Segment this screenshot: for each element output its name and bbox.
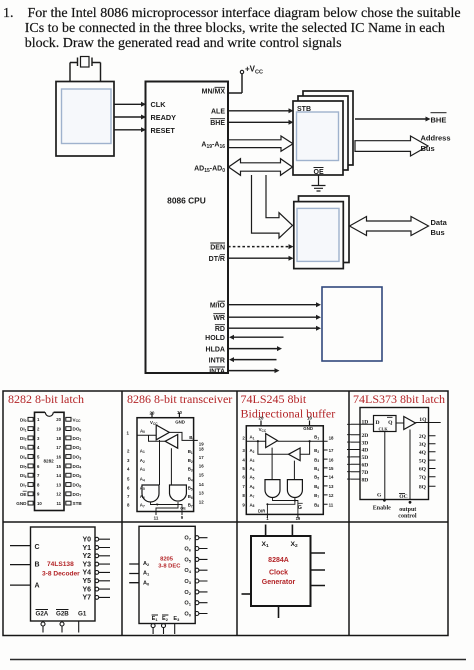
svg-text:3: 3 xyxy=(37,436,40,441)
svg-text:B2: B2 xyxy=(314,448,319,454)
svg-text:Y7: Y7 xyxy=(82,595,91,602)
svg-text:5: 5 xyxy=(242,466,245,471)
svg-text:OE: OE xyxy=(20,492,27,497)
svg-text:2D: 2D xyxy=(362,433,369,439)
svg-text:RD: RD xyxy=(215,326,225,333)
svg-text:G: G xyxy=(298,505,302,511)
svg-text:D: D xyxy=(376,420,380,426)
svg-text:8: 8 xyxy=(37,482,40,487)
svg-text:A6: A6 xyxy=(250,484,255,490)
svg-text:4: 4 xyxy=(242,457,245,462)
svg-text:7D: 7D xyxy=(362,470,369,476)
svg-text:B3: B3 xyxy=(188,467,193,473)
svg-text:6: 6 xyxy=(242,475,245,480)
svg-text:8282 8-bit latch: 8282 8-bit latch xyxy=(8,392,84,406)
svg-text:Y6: Y6 xyxy=(82,586,91,593)
svg-text:7: 7 xyxy=(127,494,130,499)
svg-text:DI1: DI1 xyxy=(20,427,27,433)
svg-text:A2: A2 xyxy=(250,448,255,454)
svg-text:DO2: DO2 xyxy=(73,445,82,451)
svg-text:B0: B0 xyxy=(189,435,194,441)
svg-text:15: 15 xyxy=(56,464,61,469)
svg-text:DO4: DO4 xyxy=(73,464,82,470)
svg-text:A0: A0 xyxy=(140,428,145,434)
svg-text:CLK: CLK xyxy=(379,426,389,431)
svg-text:A7: A7 xyxy=(250,493,255,499)
svg-text:A2: A2 xyxy=(143,561,150,567)
svg-text:1: 1 xyxy=(266,516,269,521)
svg-text:14: 14 xyxy=(199,482,204,487)
svg-text:5: 5 xyxy=(127,477,130,482)
svg-text:9: 9 xyxy=(37,492,40,497)
svg-text:A6: A6 xyxy=(140,494,145,500)
svg-text:74LS373 8bit latch: 74LS373 8bit latch xyxy=(353,392,445,406)
svg-text:4Q: 4Q xyxy=(419,450,427,456)
svg-text:MN/MX: MN/MX xyxy=(202,88,226,95)
svg-text:17: 17 xyxy=(56,445,61,450)
svg-text:2: 2 xyxy=(127,448,130,453)
svg-text:output: output xyxy=(399,507,416,513)
svg-text:8: 8 xyxy=(127,503,130,508)
svg-text:Clock: Clock xyxy=(269,570,288,577)
svg-text:16: 16 xyxy=(199,464,204,469)
svg-text:Address: Address xyxy=(421,134,451,143)
svg-text:10: 10 xyxy=(307,415,312,420)
svg-text:Bus: Bus xyxy=(431,228,445,237)
svg-text:12: 12 xyxy=(56,492,61,497)
svg-text:14: 14 xyxy=(56,473,61,478)
svg-text:O1: O1 xyxy=(184,601,191,607)
svg-text:DI3: DI3 xyxy=(20,445,27,451)
svg-text:1: 1 xyxy=(127,431,130,436)
svg-text:18: 18 xyxy=(199,446,204,451)
svg-text:HLDA: HLDA xyxy=(206,347,225,354)
svg-text:INTA: INTA xyxy=(209,368,225,375)
svg-text:B6: B6 xyxy=(314,484,319,490)
svg-text:STB: STB xyxy=(73,501,83,506)
svg-text:4: 4 xyxy=(37,445,40,450)
svg-text:C: C xyxy=(35,544,40,551)
svg-text:Y5: Y5 xyxy=(82,578,91,585)
svg-text:6D: 6D xyxy=(362,463,369,469)
svg-text:6: 6 xyxy=(37,464,40,469)
svg-text:13: 13 xyxy=(199,491,204,496)
svg-text:DO1: DO1 xyxy=(73,436,82,442)
svg-text:+VCC: +VCC xyxy=(245,65,263,76)
svg-text:B7: B7 xyxy=(314,493,319,499)
svg-text:G1: G1 xyxy=(78,611,87,618)
svg-text:14: 14 xyxy=(329,475,334,480)
svg-text:7Q: 7Q xyxy=(419,475,427,481)
svg-text:19: 19 xyxy=(296,516,301,521)
svg-text:A1: A1 xyxy=(250,435,255,441)
svg-text:11: 11 xyxy=(56,501,61,506)
svg-text:O3: O3 xyxy=(184,579,191,585)
svg-text:INTR: INTR xyxy=(209,358,225,365)
svg-text:15: 15 xyxy=(199,473,204,478)
svg-text:74LS138: 74LS138 xyxy=(47,561,74,568)
svg-text:Data: Data xyxy=(431,218,448,227)
svg-text:E1: E1 xyxy=(152,616,159,622)
svg-text:A19-A16: A19-A16 xyxy=(201,142,225,151)
svg-text:B: B xyxy=(35,561,40,568)
svg-text:DI0: DI0 xyxy=(20,417,27,423)
svg-text:X1: X1 xyxy=(262,541,270,549)
svg-text:Y2: Y2 xyxy=(82,553,91,560)
svg-text:VCC: VCC xyxy=(259,427,267,433)
svg-text:B4: B4 xyxy=(188,477,193,483)
svg-text:Y3: Y3 xyxy=(82,561,91,568)
svg-text:B1: B1 xyxy=(314,435,319,441)
svg-text:RESET: RESET xyxy=(151,126,176,135)
svg-text:STB: STB xyxy=(297,106,311,113)
svg-text:A4: A4 xyxy=(140,477,145,483)
svg-text:5D: 5D xyxy=(362,455,369,461)
svg-text:O5: O5 xyxy=(184,557,191,563)
svg-text:E3: E3 xyxy=(173,616,180,622)
svg-text:READY: READY xyxy=(151,113,177,122)
svg-text:8Q: 8Q xyxy=(419,485,427,491)
svg-text:GND: GND xyxy=(303,426,313,431)
svg-text:Y4: Y4 xyxy=(82,570,91,577)
svg-text:11: 11 xyxy=(154,516,159,521)
svg-text:10: 10 xyxy=(177,410,182,415)
svg-text:OC: OC xyxy=(399,494,407,500)
svg-text:CLK: CLK xyxy=(151,100,167,109)
svg-text:3-8 DEC: 3-8 DEC xyxy=(158,564,181,570)
svg-text:10: 10 xyxy=(37,501,42,506)
svg-text:2: 2 xyxy=(242,436,245,441)
svg-text:O2: O2 xyxy=(184,590,191,596)
svg-text:O0: O0 xyxy=(184,612,191,618)
svg-text:BHE: BHE xyxy=(210,120,225,127)
svg-text:9: 9 xyxy=(242,502,245,507)
svg-text:8205: 8205 xyxy=(160,557,174,563)
svg-text:8284A: 8284A xyxy=(268,557,289,564)
svg-text:GND: GND xyxy=(16,501,27,506)
svg-text:DEN: DEN xyxy=(210,244,225,251)
svg-text:B6: B6 xyxy=(188,494,193,500)
svg-text:OE: OE xyxy=(314,169,324,176)
svg-text:Bidirectional buffer: Bidirectional buffer xyxy=(241,406,336,420)
svg-text:6Q: 6Q xyxy=(419,467,427,473)
svg-text:B4: B4 xyxy=(314,466,319,472)
svg-text:DI6: DI6 xyxy=(20,473,27,479)
svg-text:B3: B3 xyxy=(314,457,319,463)
svg-text:18: 18 xyxy=(56,436,61,441)
svg-text:4: 4 xyxy=(127,466,130,471)
svg-text:HOLD: HOLD xyxy=(205,335,225,342)
svg-text:WR: WR xyxy=(213,315,225,322)
svg-text:A1: A1 xyxy=(143,571,150,577)
svg-text:9: 9 xyxy=(181,515,184,520)
svg-text:DO6: DO6 xyxy=(73,483,82,489)
svg-text:Enable: Enable xyxy=(373,505,391,511)
svg-text:B5: B5 xyxy=(314,475,319,481)
svg-text:Bus: Bus xyxy=(421,144,435,153)
svg-text:8086 CPU: 8086 CPU xyxy=(167,196,206,206)
svg-text:DI4: DI4 xyxy=(20,455,27,461)
svg-text:E2: E2 xyxy=(162,616,169,622)
svg-text:3: 3 xyxy=(127,458,130,463)
svg-text:3: 3 xyxy=(242,448,245,453)
svg-text:3D: 3D xyxy=(362,440,369,446)
svg-text:DT/R: DT/R xyxy=(209,256,225,263)
svg-text:A1: A1 xyxy=(140,448,145,454)
svg-text:O7: O7 xyxy=(184,536,191,542)
svg-text:13: 13 xyxy=(329,484,334,489)
svg-text:8282: 8282 xyxy=(44,459,55,464)
svg-text:1D: 1D xyxy=(362,419,369,425)
svg-text:3Q: 3Q xyxy=(419,442,427,448)
svg-text:B1: B1 xyxy=(188,449,193,455)
svg-text:A2: A2 xyxy=(140,458,145,464)
svg-text:A3: A3 xyxy=(250,457,255,463)
svg-text:1: 1 xyxy=(37,417,40,422)
svg-text:11: 11 xyxy=(329,502,334,507)
svg-text:A3: A3 xyxy=(140,466,145,472)
svg-text:13: 13 xyxy=(56,482,61,487)
svg-text:OE: OE xyxy=(180,507,186,511)
svg-text:DO7: DO7 xyxy=(73,492,82,498)
svg-text:20: 20 xyxy=(56,417,61,422)
svg-text:A0: A0 xyxy=(143,580,150,586)
svg-text:7: 7 xyxy=(37,473,40,478)
svg-text:6: 6 xyxy=(127,485,130,490)
svg-text:5: 5 xyxy=(37,454,40,459)
svg-text:GND: GND xyxy=(175,420,185,425)
svg-text:18: 18 xyxy=(329,436,334,441)
svg-text:8: 8 xyxy=(242,493,245,498)
svg-text:15: 15 xyxy=(329,466,334,471)
svg-text:Y1: Y1 xyxy=(82,545,91,552)
svg-text:5Q: 5Q xyxy=(419,458,427,464)
svg-text:17: 17 xyxy=(329,448,334,453)
svg-text:ALE: ALE xyxy=(211,109,225,116)
svg-text:74LS245 8bit: 74LS245 8bit xyxy=(241,392,307,406)
svg-text:A7: A7 xyxy=(140,503,145,509)
svg-text:Q: Q xyxy=(388,420,393,426)
svg-text:3-8 Decoder: 3-8 Decoder xyxy=(42,571,80,578)
svg-text:A5: A5 xyxy=(250,475,255,481)
svg-text:4D: 4D xyxy=(362,448,369,454)
svg-text:DI5: DI5 xyxy=(20,464,27,470)
svg-text:Y0: Y0 xyxy=(82,537,91,544)
svg-text:G: G xyxy=(377,493,382,499)
svg-text:DO0: DO0 xyxy=(73,427,82,433)
svg-text:DO3: DO3 xyxy=(73,455,82,461)
svg-text:A: A xyxy=(35,582,40,589)
svg-text:20: 20 xyxy=(150,411,155,416)
svg-text:DI7: DI7 xyxy=(20,483,27,489)
svg-text:T: T xyxy=(156,503,159,507)
svg-text:G2A: G2A xyxy=(36,611,49,618)
svg-text:M/IO: M/IO xyxy=(210,303,226,310)
svg-text:A5: A5 xyxy=(140,485,145,491)
svg-text:20: 20 xyxy=(259,415,264,420)
svg-text:19: 19 xyxy=(56,427,61,432)
svg-text:AD15-AD0: AD15-AD0 xyxy=(194,165,225,174)
svg-text:12: 12 xyxy=(199,500,204,505)
svg-text:16: 16 xyxy=(329,457,334,462)
svg-text:2: 2 xyxy=(37,427,40,432)
svg-text:VCC: VCC xyxy=(150,420,158,426)
svg-text:G2B: G2B xyxy=(56,611,69,618)
svg-text:X2: X2 xyxy=(291,541,299,549)
svg-text:7: 7 xyxy=(242,484,245,489)
svg-text:B2: B2 xyxy=(188,458,193,464)
svg-text:DO5: DO5 xyxy=(73,473,82,479)
svg-text:BHE: BHE xyxy=(431,116,447,125)
svg-text:A4: A4 xyxy=(250,466,255,472)
svg-text:Generator: Generator xyxy=(262,579,296,586)
svg-text:O6: O6 xyxy=(184,547,191,553)
svg-text:B8: B8 xyxy=(314,502,319,508)
svg-text:B5: B5 xyxy=(188,486,193,492)
svg-text:17: 17 xyxy=(199,455,204,460)
svg-text:1Q: 1Q xyxy=(419,417,427,423)
svg-text:control: control xyxy=(398,513,417,519)
svg-text:DIR: DIR xyxy=(258,508,265,513)
svg-text:2Q: 2Q xyxy=(419,434,427,440)
svg-text:O4: O4 xyxy=(184,568,191,574)
svg-text:12: 12 xyxy=(329,493,334,498)
svg-text:8D: 8D xyxy=(362,477,369,483)
svg-text:8286 8-bit transceiver: 8286 8-bit transceiver xyxy=(127,392,232,406)
svg-text:DI2: DI2 xyxy=(20,436,27,442)
svg-text:16: 16 xyxy=(56,454,61,459)
svg-text:A8: A8 xyxy=(250,502,255,508)
svg-text:B7: B7 xyxy=(188,503,193,509)
svg-text:VCC: VCC xyxy=(73,417,82,423)
